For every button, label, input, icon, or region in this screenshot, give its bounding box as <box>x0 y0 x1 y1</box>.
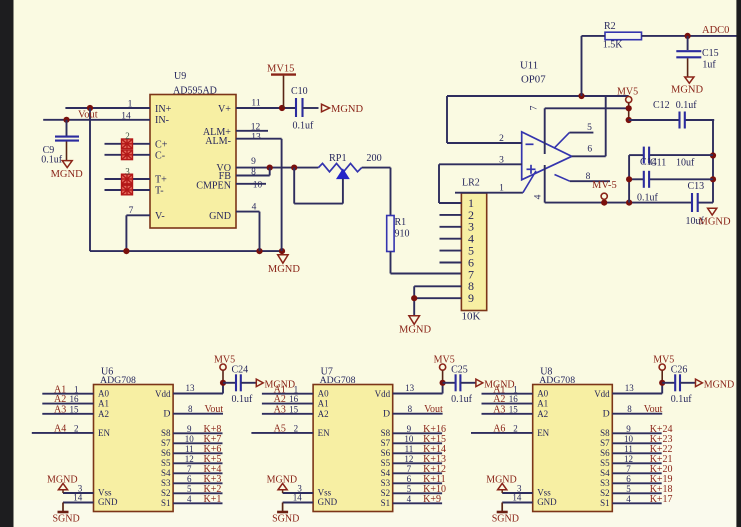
svg-text:A2: A2 <box>537 409 548 419</box>
svg-text:S1: S1 <box>161 498 171 508</box>
svg-text:K+1: K+1 <box>204 494 222 505</box>
svg-text:A5: A5 <box>274 424 286 435</box>
svg-text:10: 10 <box>624 434 634 444</box>
svg-text:1: 1 <box>499 184 504 194</box>
svg-text:S2: S2 <box>161 488 171 498</box>
svg-text:S5: S5 <box>161 458 171 468</box>
svg-text:6: 6 <box>626 474 631 484</box>
svg-text:D: D <box>383 409 390 420</box>
svg-text:GND: GND <box>98 497 118 507</box>
svg-text:EN: EN <box>98 428 110 438</box>
svg-text:8: 8 <box>627 404 632 414</box>
svg-text:14: 14 <box>121 112 131 122</box>
svg-text:MV-5: MV-5 <box>592 180 617 191</box>
svg-text:T+: T+ <box>155 175 167 186</box>
svg-text:S6: S6 <box>600 448 610 458</box>
svg-text:9: 9 <box>468 291 474 305</box>
svg-text:AD595AD: AD595AD <box>173 86 217 97</box>
svg-text:A0: A0 <box>537 389 548 399</box>
svg-text:16: 16 <box>509 394 519 404</box>
svg-text:SGND: SGND <box>492 513 519 524</box>
svg-text:14: 14 <box>73 493 83 503</box>
svg-text:S7: S7 <box>161 438 171 448</box>
svg-text:MGND: MGND <box>51 169 84 180</box>
svg-text:SGND: SGND <box>272 513 299 524</box>
svg-text:MGND: MGND <box>399 325 432 336</box>
svg-text:10: 10 <box>253 181 263 191</box>
svg-text:ADG708: ADG708 <box>320 375 356 386</box>
svg-text:GND: GND <box>537 497 557 507</box>
svg-text:7: 7 <box>530 105 540 110</box>
svg-text:S7: S7 <box>600 438 610 448</box>
svg-text:6: 6 <box>187 474 192 484</box>
svg-text:MGND: MGND <box>671 85 704 96</box>
svg-text:2: 2 <box>74 424 79 434</box>
svg-text:S1: S1 <box>600 498 610 508</box>
svg-text:6: 6 <box>407 474 412 484</box>
svg-text:0.1uf: 0.1uf <box>293 121 315 132</box>
svg-text:C13: C13 <box>688 181 705 192</box>
svg-text:C12: C12 <box>653 100 670 111</box>
svg-text:7: 7 <box>129 206 134 216</box>
svg-text:1: 1 <box>294 384 299 394</box>
svg-text:9: 9 <box>407 424 412 434</box>
svg-text:C15: C15 <box>702 48 719 59</box>
svg-text:S4: S4 <box>161 468 171 478</box>
svg-text:MGND: MGND <box>267 475 298 486</box>
svg-text:5: 5 <box>626 484 631 494</box>
svg-text:A1: A1 <box>537 399 548 409</box>
svg-text:11: 11 <box>624 444 633 454</box>
svg-text:S3: S3 <box>600 478 610 488</box>
svg-text:A3: A3 <box>274 404 286 415</box>
svg-text:SGND: SGND <box>53 513 80 524</box>
svg-text:A0: A0 <box>98 389 109 399</box>
svg-text:S6: S6 <box>381 448 391 458</box>
svg-text:C24: C24 <box>232 364 249 375</box>
svg-text:8: 8 <box>586 172 591 182</box>
svg-text:V+: V+ <box>218 104 231 115</box>
svg-text:A2: A2 <box>318 409 329 419</box>
svg-text:GND: GND <box>209 211 231 222</box>
svg-text:A6: A6 <box>493 424 505 435</box>
svg-text:10K: 10K <box>462 311 481 323</box>
svg-text:R1: R1 <box>395 217 407 228</box>
svg-text:V-: V- <box>155 211 165 222</box>
svg-text:Vout: Vout <box>205 404 224 415</box>
svg-text:0.1uf: 0.1uf <box>451 394 473 405</box>
svg-text:U11: U11 <box>520 60 538 72</box>
svg-text:4: 4 <box>407 494 412 504</box>
svg-text:IN+: IN+ <box>155 104 172 115</box>
svg-text:2: 2 <box>125 131 130 141</box>
svg-text:7: 7 <box>407 464 412 474</box>
svg-text:CMPEN: CMPEN <box>196 181 231 192</box>
svg-text:3: 3 <box>125 166 130 176</box>
svg-text:1: 1 <box>513 384 518 394</box>
svg-text:0.1uf: 0.1uf <box>232 394 254 405</box>
svg-text:EN: EN <box>318 428 330 438</box>
svg-text:S5: S5 <box>381 458 391 468</box>
svg-text:Vout: Vout <box>78 110 98 121</box>
svg-text:A1: A1 <box>318 399 329 409</box>
svg-text:S1: S1 <box>381 498 391 508</box>
svg-text:4: 4 <box>534 194 544 199</box>
svg-text:11: 11 <box>185 444 194 454</box>
svg-text:5: 5 <box>587 123 592 133</box>
svg-text:S8: S8 <box>161 428 171 438</box>
svg-text:2: 2 <box>513 424 518 434</box>
svg-text:11: 11 <box>251 99 260 109</box>
svg-text:3: 3 <box>499 155 504 165</box>
svg-text:K+17: K+17 <box>650 494 673 505</box>
svg-text:MGND: MGND <box>486 475 517 486</box>
svg-text:1uf: 1uf <box>702 60 716 71</box>
svg-text:9: 9 <box>626 424 631 434</box>
svg-text:15: 15 <box>289 404 299 414</box>
svg-text:Vdd: Vdd <box>155 389 171 399</box>
svg-text:S8: S8 <box>600 428 610 438</box>
svg-text:2: 2 <box>499 134 504 144</box>
svg-text:15: 15 <box>509 404 519 414</box>
svg-text:6: 6 <box>587 144 592 154</box>
svg-text:12: 12 <box>624 454 633 464</box>
svg-text:Vss: Vss <box>318 488 332 498</box>
svg-text:D: D <box>603 409 610 420</box>
svg-text:10uf: 10uf <box>676 158 695 169</box>
svg-text:R2: R2 <box>604 21 616 32</box>
svg-text:16: 16 <box>289 394 299 404</box>
svg-text:2: 2 <box>294 424 299 434</box>
svg-text:Vss: Vss <box>98 488 112 498</box>
svg-text:10: 10 <box>185 434 195 444</box>
svg-text:A0: A0 <box>318 389 329 399</box>
svg-text:S5: S5 <box>600 458 610 468</box>
svg-text:MV5: MV5 <box>617 87 638 98</box>
svg-text:C-: C- <box>155 150 165 161</box>
svg-text:S6: S6 <box>161 448 171 458</box>
svg-text:0.1uf: 0.1uf <box>676 100 698 111</box>
svg-text:12: 12 <box>404 454 413 464</box>
svg-text:13: 13 <box>251 133 261 143</box>
svg-text:ADG708: ADG708 <box>539 375 575 386</box>
svg-text:16: 16 <box>70 394 80 404</box>
svg-text:ADG708: ADG708 <box>100 375 136 386</box>
svg-text:IN-: IN- <box>155 115 169 126</box>
svg-text:ALM-: ALM- <box>205 136 231 147</box>
svg-text:8: 8 <box>408 404 413 414</box>
svg-text:MGND: MGND <box>699 217 732 228</box>
svg-text:7: 7 <box>187 464 192 474</box>
svg-text:MGND: MGND <box>268 264 301 275</box>
svg-text:9: 9 <box>187 424 192 434</box>
svg-text:0.1uf: 0.1uf <box>637 193 659 204</box>
svg-text:13: 13 <box>405 383 415 393</box>
svg-text:S4: S4 <box>600 468 610 478</box>
svg-text:200: 200 <box>366 153 381 164</box>
svg-text:D: D <box>163 409 170 420</box>
svg-text:1: 1 <box>74 384 79 394</box>
svg-text:T-: T- <box>155 185 164 196</box>
svg-text:EN: EN <box>537 428 549 438</box>
svg-text:Vdd: Vdd <box>375 389 391 399</box>
svg-text:S7: S7 <box>381 438 391 448</box>
svg-text:Vout: Vout <box>644 404 663 415</box>
svg-text:MGND: MGND <box>331 104 364 115</box>
svg-text:1: 1 <box>128 100 133 110</box>
svg-text:S8: S8 <box>381 428 391 438</box>
svg-text:LR2: LR2 <box>462 178 480 189</box>
svg-text:Vout: Vout <box>424 404 443 415</box>
svg-text:RP1: RP1 <box>329 153 347 164</box>
svg-text:S4: S4 <box>381 468 391 478</box>
svg-text:MGND: MGND <box>704 379 735 390</box>
svg-text:14: 14 <box>512 493 522 503</box>
svg-text:14: 14 <box>293 493 303 503</box>
svg-text:12: 12 <box>185 454 194 464</box>
svg-text:A1: A1 <box>98 399 109 409</box>
svg-text:9: 9 <box>251 157 256 167</box>
svg-text:0.1uf: 0.1uf <box>671 394 693 405</box>
svg-text:Vdd: Vdd <box>594 389 610 399</box>
svg-text:7: 7 <box>626 464 631 474</box>
svg-text:K+9: K+9 <box>423 494 441 505</box>
svg-text:4: 4 <box>626 494 631 504</box>
svg-text:4: 4 <box>187 494 192 504</box>
svg-text:S2: S2 <box>381 488 391 498</box>
svg-text:A3: A3 <box>493 404 505 415</box>
svg-text:MV15: MV15 <box>267 64 294 75</box>
svg-text:GND: GND <box>318 497 338 507</box>
svg-text:15: 15 <box>70 404 80 414</box>
svg-text:13: 13 <box>186 383 196 393</box>
svg-text:C26: C26 <box>671 364 688 375</box>
svg-text:1.5K: 1.5K <box>603 40 624 51</box>
svg-text:S3: S3 <box>161 478 171 488</box>
svg-text:910: 910 <box>395 229 410 240</box>
svg-text:MGND: MGND <box>47 475 78 486</box>
svg-text:A3: A3 <box>54 404 66 415</box>
svg-text:C+: C+ <box>155 140 168 151</box>
svg-text:A4: A4 <box>54 424 66 435</box>
svg-text:S2: S2 <box>600 488 610 498</box>
svg-text:ADC0: ADC0 <box>702 25 729 36</box>
svg-text:A2: A2 <box>98 409 109 419</box>
svg-text:5: 5 <box>407 484 412 494</box>
svg-text:8: 8 <box>188 404 193 414</box>
svg-text:11: 11 <box>405 444 414 454</box>
svg-text:5: 5 <box>187 484 192 494</box>
svg-text:C10: C10 <box>291 86 308 97</box>
svg-text:C25: C25 <box>451 364 468 375</box>
svg-text:13: 13 <box>625 383 635 393</box>
svg-text:OP07: OP07 <box>521 74 546 86</box>
svg-text:S3: S3 <box>381 478 391 488</box>
svg-text:Vss: Vss <box>537 488 551 498</box>
svg-text:10: 10 <box>404 434 414 444</box>
svg-text:U9: U9 <box>174 71 186 82</box>
svg-text:C11: C11 <box>650 157 666 168</box>
svg-text:0.1uf: 0.1uf <box>41 155 63 166</box>
